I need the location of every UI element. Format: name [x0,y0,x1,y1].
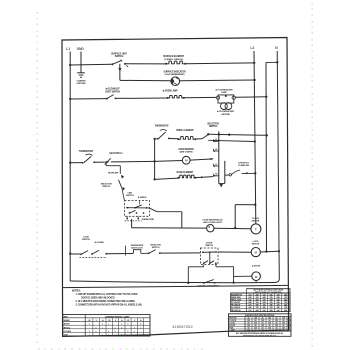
fluorescent lamp assembly [218,95,234,103]
svg-text:120: 120 [256,307,259,309]
clock feed line left [132,227,207,229]
light receptacle [207,225,214,232]
svg-text:SWITCH: SWITCH [102,186,110,188]
surface element [166,61,185,64]
contact to N line [202,135,208,139]
svg-text:H2: H2 [215,174,217,176]
svg-text:60: 60 [268,330,270,332]
wire selector to L2 [208,140,255,141]
junction L2 selector [254,140,256,142]
svg-text:120: 120 [270,307,273,309]
wire bake to selector [195,177,213,178]
junction L2 clean [254,172,256,174]
junction N lock [278,250,280,252]
svg-text:SWITCH: SWITCH [82,239,90,241]
svg-text:AND COVER LIGHT: AND COVER LIGHT [203,221,222,224]
wire L1 to oven light switch [70,98,107,100]
indicator light [171,77,180,86]
svg-text:SWITCH: SWITCH [209,126,218,128]
wire L1 to surface switch [70,63,112,66]
left scan dotted column [37,12,39,14]
wire element to L2 [185,62,254,65]
svg-text:CHASSIS: CHASSIS [77,80,87,83]
svg-text:W: W [127,320,129,322]
arrow under selector [220,184,223,187]
selector bottom contacts [148,252,150,254]
svg-text:240: 240 [248,306,251,309]
wire door box to lock motor [218,251,251,253]
svg-text:DOOR CLOSED AND UNLOCKED.: DOOR CLOSED AND UNLOCKED. [81,296,115,299]
svg-text:GROUND: GROUND [221,114,230,116]
wire line1 bend to N [266,61,277,63]
svg-text:W: W [109,320,111,322]
svg-text:RR 2500 W: RR 2500 W [231,310,240,312]
svg-text:SURFACE UNIT: SURFACE UNIT [111,52,127,55]
svg-text:BAKE: BAKE [64,323,70,326]
svg-text:L2: L2 [250,46,254,50]
selector terminal L2 [213,165,218,167]
svg-text:2. 18 V. MINUTES GROUNDING CON: 2. 18 V. MINUTES GROUNDING CONNECTED FOR… [76,300,136,303]
right scan dotted column [311,3,313,5]
junction L2 line2 [253,79,255,81]
GND lead [80,52,82,73]
svg-text:LIGHT (AMBER/RED): LIGHT (AMBER/RED) [165,73,185,76]
thermostat contact left [82,162,84,164]
svg-text:⊗ DOOR: ⊗ DOOR [252,265,261,268]
fluorescent tube end left [221,103,228,110]
stub door motor to bottom line [255,281,257,283]
drop right [233,267,235,283]
selector terminal H2 [213,175,218,177]
svg-text:A-CLEAN: A-CLEAN [94,241,104,244]
svg-text:120: 120 [261,330,264,332]
wire to oven lamp element [115,97,167,99]
svg-text:THERMOSTAT: THERMOSTAT [142,218,155,221]
junction N branch line3 [265,96,267,98]
junction riser to L2 [234,227,236,229]
wire to indicator light [120,79,172,81]
line switch contacts row1 [126,207,150,209]
wire switch down to indicator [119,64,121,81]
svg-text:THERMOSTAT: THERMOSTAT [79,150,94,153]
contact hi-spd [105,158,111,164]
wire to oven sensor [155,160,183,163]
wire to distribution node [111,160,155,163]
svg-text:LAMP: LAMP [229,329,235,332]
lock motor [251,248,260,257]
drop left [187,267,189,283]
wire box lower left [188,266,203,268]
svg-text:318067052: 318067052 [172,325,193,329]
svg-text:CLEAN: CLEAN [64,330,72,333]
thermostat contact right [157,138,159,140]
junction L2 tap [254,204,256,206]
branch to selector/line switch [105,161,107,163]
oven sensor [182,156,190,164]
wire to thermostat lock [106,253,133,255]
svg-text:⊗ FLUORESCENT: ⊗ FLUORESCENT [217,110,235,113]
svg-text:SWITCH: SWITCH [115,56,124,58]
lower-right motor spec table [229,314,292,337]
svg-text:120: 120 [275,330,278,332]
tail riser down [131,219,133,228]
svg-text:HEAT-SPD L1: HEAT-SPD L1 [109,152,123,155]
bake element [178,175,195,178]
selector terminal L1 [213,140,218,142]
svg-text:(1 SMALL 1 MED W): (1 SMALL 1 MED W) [164,58,183,61]
junction L1 line1 [69,64,71,66]
svg-text:LAMP: LAMP [221,91,227,94]
line switch lower tail contacts [126,216,128,218]
svg-text:A-SPEED: A-SPEED [138,196,147,199]
arrowhead selector feed [123,187,125,190]
junction N top [276,61,278,63]
svg-text:BROIL: BROIL [64,327,71,329]
door switch internals [202,251,217,253]
svg-text:GROUND: GROUND [76,83,86,85]
arrow on selector feed [121,175,124,178]
svg-text:SWITCH: SWITCH [152,247,160,249]
svg-text:120: 120 [277,310,280,312]
wire lock motor to N [260,250,279,253]
svg-text:W: W [89,320,91,322]
oven light switch [106,98,108,100]
broil element [178,137,195,140]
svg-text:240: 240 [263,306,266,309]
svg-text:240: 240 [277,306,280,309]
junction L1 line4 [69,162,71,164]
svg-text:120: 120 [263,310,266,312]
svg-text:TOP: TOP [64,335,69,337]
door switch dashed box [200,248,218,264]
svg-text:MOTOR: MOTOR [252,244,260,246]
wire clean to L2 [242,172,256,174]
bottom-left burner rating table [63,314,150,336]
clean switch [225,174,229,176]
bottom scan dotted row [38,348,40,350]
svg-text:CLEAN SW: CLEAN SW [238,164,250,167]
svg-text:L1: L1 [66,47,70,51]
clock motor [251,224,261,234]
terminal drop right [215,264,217,266]
arrow on drop wire [119,68,122,71]
svg-text:1. CIRCUIT SHOWN WITH ALL CONT: 1. CIRCUIT SHOWN WITH ALL CONTROLS SET T… [76,293,138,296]
svg-text:SURFACE ELEMENT: SURFACE ELEMENT [163,55,185,58]
ground symbol [77,72,85,74]
upper-right element spec table [246,289,290,293]
wire sensor to selector [190,159,213,160]
wire to broil element [169,138,179,140]
wire to L2 [235,204,255,206]
wire to door switch box [160,252,201,254]
junction N branch lock [265,250,267,252]
L1 bus [69,52,71,282]
svg-text:SURFACE INDICATOR: SURFACE INDICATOR [163,70,186,73]
distribution vertical [154,139,156,180]
bottom return line [70,281,274,283]
wire box lower right [216,266,234,268]
svg-text:⊗ CLEANOUT: ⊗ CLEANOUT [105,88,120,91]
svg-text:THERMOSTAT: THERMOSTAT [154,124,169,127]
svg-text:THERMOSTAT: THERMOSTAT [131,244,145,247]
sheet border frame [62,38,289,337]
wire line switch to riser [150,208,182,212]
svg-text:240: 240 [284,309,287,312]
svg-text:120: 120 [248,310,251,312]
line switch contacts row2 [129,212,131,214]
svg-text:120: 120 [247,330,250,332]
svg-text:L1: L1 [215,139,217,141]
N bus with bottom curve [275,51,280,283]
svg-text:(SEE CHART): (SEE CHART) [180,150,193,153]
fluorescent tube end right [225,103,232,110]
svg-text:60: 60 [282,330,284,332]
svg-text:NOTES:: NOTES: [72,289,81,292]
svg-text:RESISTANCE VALUES IN OHMS AT 7: RESISTANCE VALUES IN OHMS AT 75 F [243,334,276,337]
svg-text:HI-SPD BR: HI-SPD BR [108,172,119,174]
thermostat lock bump [133,250,140,254]
wire broil to lift blade [195,138,202,140]
oven lamp terminal block [168,96,184,98]
surface unit switch [112,63,114,65]
svg-text:SWITCH: SWITCH [205,245,213,247]
tick mark [124,246,126,256]
wire L1 to thermostat [70,162,82,164]
clock feed line right [214,227,251,229]
junction L1 line3 [69,98,71,100]
L2 bus [254,51,256,224]
door lock switch on bottom line [203,282,205,284]
svg-text:T: T [255,228,257,232]
lock switch contacts [80,253,82,255]
N branch bus [265,62,268,251]
svg-text:60: 60 [254,330,256,332]
svg-text:BROIL ELEMENT: BROIL ELEMENT [176,130,194,132]
divider line above notes/tables [62,285,288,287]
svg-text:H1: H1 [215,149,217,151]
wire thermostat to hi-spd contact [94,161,105,163]
wire indicator to L2 [180,79,255,82]
svg-text:120: 120 [284,307,287,309]
junction L2 line1 [253,62,255,64]
svg-text:BURNER RATING CHART: BURNER RATING CHART [105,315,130,318]
wire switch to surface element [126,63,167,65]
svg-text:SWITCH: SWITCH [126,195,134,197]
selector terminal H1 [213,150,218,152]
riser to L2 tap [234,205,236,228]
wire to door lock motor [234,275,252,277]
svg-text:⊗ DOOR LOCK SWITCH: ⊗ DOOR LOCK SWITCH [197,285,219,288]
contact selector feed [119,180,122,188]
wire L1 to lock switch [70,253,80,255]
door lock motor [252,272,261,281]
line switch dashed box [125,201,150,217]
svg-text:⊗ OVEN LAMP: ⊗ OVEN LAMP [163,90,178,93]
svg-text:LR 1200 W: LR 1200 W [231,307,240,309]
svg-text:3. CONNECTORS WITH IN DO NOT A: 3. CONNECTORS WITH IN DO NOT APPEAR ON A… [76,303,142,306]
riser down to clock line [181,212,183,228]
svg-text:MOTOR: MOTOR [252,220,260,222]
svg-text:240: 240 [270,309,273,312]
terminal drop left [203,264,205,266]
junction L1 bottom [69,252,71,254]
svg-text:120: 120 [287,330,290,332]
svg-text:LIGHT RECEPTACLE: LIGHT RECEPTACLE [203,218,224,221]
wire to fluorescent lamp [184,96,217,98]
junction distribution mid [153,160,155,162]
svg-text:⊗ FLUORESCENT: ⊗ FLUORESCENT [215,88,233,91]
svg-text:SURFACE UNIT SPECIFICATIONS: SURFACE UNIT SPECIFICATIONS [245,314,275,317]
svg-text:L2: L2 [215,164,217,166]
svg-text:240: 240 [256,309,259,312]
svg-text:NAME: NAME [64,319,71,322]
junction N branch broil [266,134,268,136]
svg-text:GND: GND [77,47,85,51]
svg-text:BAKE ELEMENT: BAKE ELEMENT [177,171,194,174]
svg-text:LIGHT SWITCH: LIGHT SWITCH [105,91,121,93]
wire to bake element [155,178,179,179]
wire lamp to N branch [236,96,267,99]
wire broil return to N branch [208,134,267,135]
